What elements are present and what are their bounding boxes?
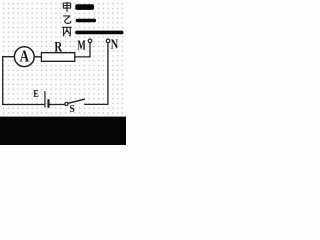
terminal N (binding post) — [106, 39, 110, 43]
switch S pivot — [65, 102, 68, 105]
svg-text:E: E — [33, 89, 39, 100]
svg-text:R: R — [54, 39, 62, 55]
svg-text:M: M — [77, 38, 86, 53]
label 甲 (sample A) — [63, 3, 70, 12]
switch S lever — [68, 99, 84, 103]
svg-text:N: N — [111, 38, 118, 53]
bar sample 乙 — [76, 19, 96, 22]
wire: ammeter to resistor — [34, 56, 41, 58]
black band at bottom — [0, 117, 126, 145]
svg-text:A: A — [20, 47, 30, 66]
wire: right vertical from N down — [85, 43, 108, 105]
battery E short plate — [47, 100, 49, 107]
ammeter A — [14, 47, 34, 67]
wire: left vertical rail — [2, 57, 4, 105]
svg-text:S: S — [69, 104, 75, 115]
wire: resistor to M corner — [75, 43, 90, 57]
label 丙 (sample C) — [62, 27, 71, 36]
label 乙 (sample B) — [64, 16, 71, 24]
wire: battery to switch — [50, 104, 65, 106]
wire: bottom from left rail to battery — [3, 104, 44, 106]
wire: top-left horizontal from left rail to ammeter — [3, 56, 15, 58]
bar sample 甲 — [75, 4, 94, 10]
bar sample 丙 — [75, 31, 123, 35]
battery E long plate — [44, 92, 46, 107]
resistor R (box) — [41, 53, 74, 62]
terminal M (binding post) — [88, 39, 92, 43]
